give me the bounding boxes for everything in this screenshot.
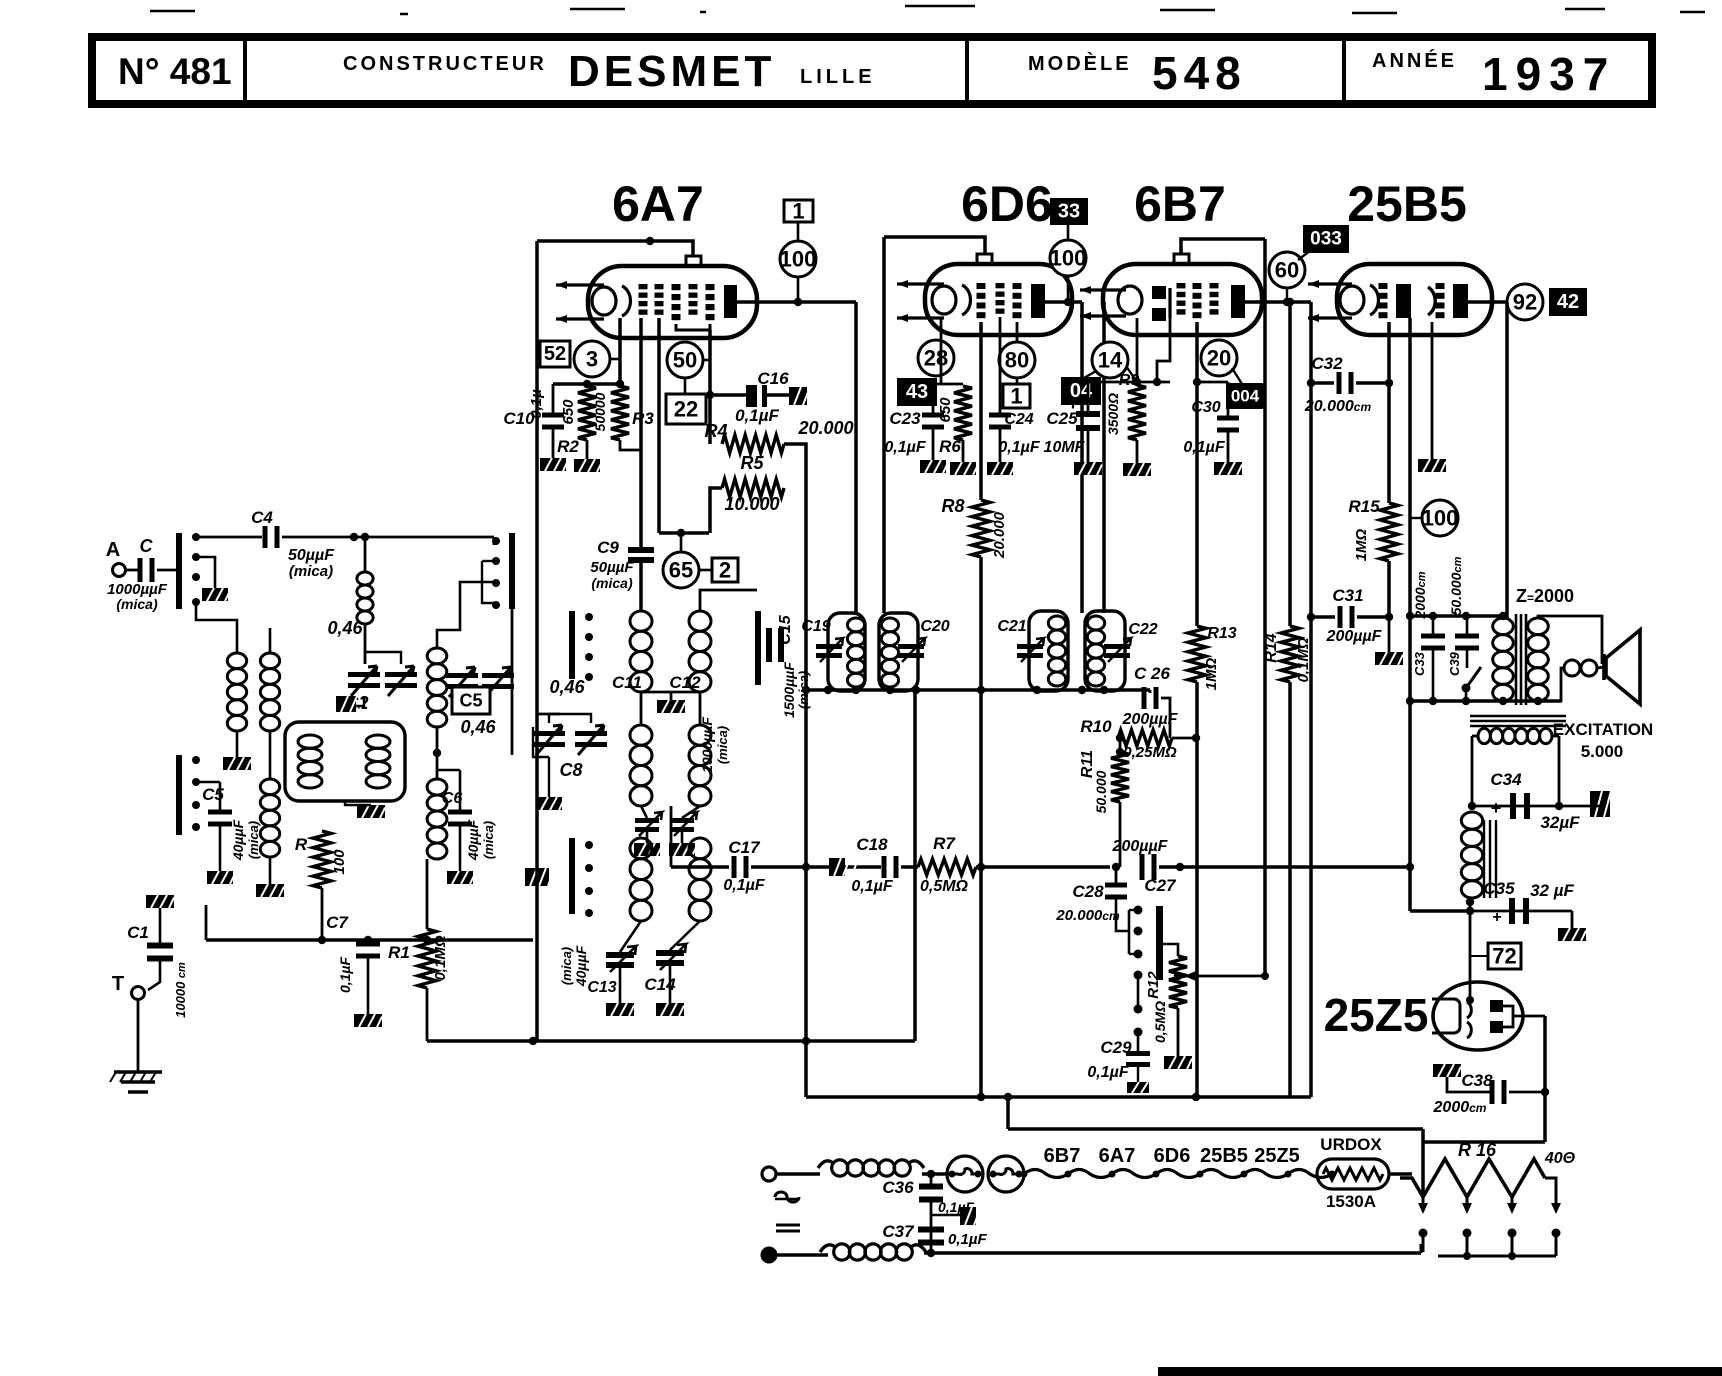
ground R9 bbox=[1123, 463, 1151, 476]
coil L2 antenna sec bbox=[260, 653, 279, 731]
wire 6A7 g2 drop bbox=[657, 318, 661, 533]
wire B5 grid line drop bbox=[1309, 302, 1313, 1097]
wire bus osc bottom bbox=[533, 1039, 915, 1043]
wire caps bottom bus bbox=[1410, 699, 1561, 703]
svg-text:A: A bbox=[106, 539, 120, 561]
switch stator bar S2 bbox=[569, 838, 575, 914]
wire R8 line lower bbox=[979, 690, 983, 1097]
wire circle20-box bbox=[1232, 368, 1242, 384]
svg-text:(mica): (mica) bbox=[246, 821, 261, 859]
ground C24 bbox=[987, 462, 1015, 475]
wire circle65 to box2 bbox=[699, 569, 712, 572]
wire R15 bottom bbox=[1387, 561, 1391, 617]
coil L4a bbox=[298, 735, 322, 788]
capacitor C25 electrolytic bbox=[1076, 411, 1100, 417]
svg-text:T: T bbox=[112, 973, 124, 995]
ground C7 bbox=[354, 1014, 382, 1027]
svg-text:R10: R10 bbox=[1080, 717, 1112, 736]
capacitor C8 block trimmer b bbox=[575, 725, 607, 755]
wire neutral hook bbox=[1420, 1244, 1423, 1253]
ground C2 bbox=[336, 696, 364, 712]
ground C13 bbox=[606, 1003, 634, 1016]
resistor R10 bbox=[1118, 730, 1172, 746]
svg-text:R7: R7 bbox=[933, 834, 956, 853]
capacitor C26 bbox=[1142, 687, 1147, 709]
node R14 top bbox=[1286, 298, 1294, 306]
terminal T bbox=[132, 987, 145, 1000]
svg-text:50000: 50000 bbox=[592, 392, 608, 431]
svg-text:50µµF: 50µµF bbox=[288, 547, 335, 564]
wire RF coil top bbox=[437, 582, 494, 648]
title block divider 1 bbox=[243, 40, 247, 101]
capacitor C23 bbox=[922, 413, 944, 418]
node R7 node bbox=[977, 863, 985, 871]
svg-text:R13: R13 bbox=[1207, 625, 1236, 642]
wire 6D6 cap frame bbox=[884, 237, 985, 254]
ground C25 bbox=[1074, 462, 1102, 475]
wire C11 leads bbox=[641, 806, 647, 818]
wire R6 gnd bbox=[962, 440, 965, 462]
svg-text:C33: C33 bbox=[1412, 651, 1427, 676]
node C31 left bbox=[1307, 613, 1315, 621]
ground C29 bbox=[1127, 1082, 1155, 1093]
capacitor C24 bbox=[989, 413, 1011, 418]
circle 100 (6D6 plate) bbox=[1050, 240, 1087, 276]
tube 6A7 top cap bbox=[686, 256, 701, 266]
svg-text:43: 43 bbox=[906, 381, 928, 403]
wire riser to tap bbox=[1421, 1129, 1425, 1197]
node IF bus junctions bbox=[802, 686, 810, 694]
svg-text:0,5MΩ: 0,5MΩ bbox=[920, 878, 969, 895]
coil L-RF2 bbox=[427, 779, 447, 859]
switch stator bar S1 bbox=[569, 611, 575, 679]
svg-text:6D6: 6D6 bbox=[1154, 1145, 1191, 1167]
tube 6D6 grid g1 bbox=[977, 283, 986, 289]
tube 6D6 top cap bbox=[977, 254, 992, 264]
node bias bus right bbox=[616, 380, 624, 388]
wire L3 gnd bbox=[269, 857, 272, 884]
svg-text:C21: C21 bbox=[997, 618, 1026, 635]
circle 20 bbox=[1201, 340, 1237, 376]
svg-text:0,25MΩ: 0,25MΩ bbox=[1123, 744, 1177, 761]
wire C30 gnd bbox=[1227, 431, 1230, 462]
svg-text:C32: C32 bbox=[1311, 354, 1343, 373]
tube 6A7 grid g1 bbox=[639, 284, 648, 289]
wire C7 top bbox=[367, 940, 370, 943]
node g2 jog bbox=[677, 529, 685, 537]
circle 80 bbox=[999, 342, 1035, 378]
wire bar to R12 bbox=[1163, 944, 1178, 956]
R16 tap 1 bbox=[1422, 1197, 1425, 1205]
node AVC node bbox=[1174, 972, 1182, 980]
wire 25Z5 plates join bbox=[1503, 1006, 1513, 1027]
svg-text:C12: C12 bbox=[669, 673, 701, 692]
wire R1 top bbox=[426, 859, 429, 929]
tube 6B7 diode strap bbox=[1168, 288, 1171, 318]
tube 6D6 heater bbox=[897, 282, 944, 285]
box 72 bbox=[1488, 943, 1521, 969]
node 6D6 plate node bbox=[1064, 298, 1072, 306]
svg-text:(mica): (mica) bbox=[116, 596, 158, 612]
terminal C16 end bbox=[789, 387, 817, 405]
wire R10 to R13 line bbox=[1172, 737, 1196, 740]
node C32 nodes bbox=[1307, 379, 1315, 387]
circle 92 bbox=[1507, 284, 1543, 320]
wire R4 right bbox=[784, 444, 806, 487]
ground osc primary bbox=[657, 700, 685, 713]
svg-text:200µµF: 200µµF bbox=[1326, 628, 1383, 645]
svg-text:R14: R14 bbox=[1263, 633, 1280, 662]
trimmer C13 bbox=[606, 952, 634, 958]
wire bus y1097 bbox=[806, 1095, 1311, 1099]
wire 6A7 bias bus bbox=[553, 382, 620, 386]
terminal A bbox=[113, 564, 126, 577]
transformer T1 primary bbox=[1493, 618, 1514, 701]
ground switch rotor bbox=[525, 868, 553, 886]
svg-text:20.000cm: 20.000cm bbox=[1055, 907, 1120, 924]
svg-text:C27: C27 bbox=[1144, 876, 1177, 895]
wire 6D6 bias bus bbox=[933, 383, 963, 386]
wire 6A7 g1 drop bbox=[639, 318, 643, 547]
coil L1 antenna bbox=[227, 653, 246, 731]
ground R12 bbox=[1164, 1056, 1192, 1069]
tube 6A7 grid g2 bbox=[655, 284, 664, 289]
wire R8 to IF bus bbox=[979, 557, 983, 690]
switch contacts S2 bbox=[585, 841, 593, 849]
wire R12 gnd bbox=[1177, 1008, 1180, 1056]
node tap bus nodes bbox=[1463, 1252, 1471, 1260]
ground R2 bbox=[574, 459, 602, 472]
svg-text:40µµF: 40µµF bbox=[230, 819, 246, 861]
field coil 2 core bbox=[1484, 820, 1496, 898]
switch contact row bbox=[1128, 910, 1131, 954]
svg-text:(mica): (mica) bbox=[715, 726, 730, 764]
capacitor C27 200uuF bbox=[1140, 854, 1145, 880]
svg-text:33: 33 bbox=[1058, 201, 1080, 223]
coil L13 IF2 primary bbox=[1048, 616, 1065, 686]
wire C39 leads bbox=[1466, 616, 1469, 635]
tube 6B7 cathode bbox=[1118, 286, 1142, 314]
speaker coil bbox=[1564, 660, 1580, 676]
capacitor C29 bbox=[1126, 1051, 1150, 1056]
capacitor C34 electrolytic bbox=[1510, 793, 1516, 819]
wire C6 top bbox=[459, 770, 462, 811]
wire C34 bus bbox=[1472, 805, 1590, 808]
speaker cone bbox=[1604, 630, 1640, 704]
svg-text:0,1µF: 0,1µF bbox=[337, 957, 353, 994]
node g2 line top-bus bbox=[1406, 612, 1414, 620]
resistor R12 bbox=[1169, 956, 1187, 1008]
resistor R13 bbox=[1188, 626, 1206, 682]
svg-text:0,1µF: 0,1µF bbox=[735, 406, 779, 425]
box 52 bbox=[540, 341, 570, 367]
svg-text:C17: C17 bbox=[728, 838, 761, 857]
svg-text:C22: C22 bbox=[1128, 621, 1157, 638]
ground antenna switch bbox=[202, 588, 230, 601]
IF1 box C19 bbox=[828, 613, 865, 691]
resistor R14 bbox=[1281, 626, 1299, 682]
svg-text:100: 100 bbox=[780, 247, 817, 272]
svg-text:C 26: C 26 bbox=[1134, 664, 1170, 683]
wire C30 lead bbox=[1197, 381, 1228, 384]
svg-text:LILLE: LILLE bbox=[800, 66, 876, 88]
svg-text:R1: R1 bbox=[388, 943, 410, 962]
svg-text:6A7: 6A7 bbox=[612, 176, 704, 232]
svg-text:+: + bbox=[1067, 393, 1079, 415]
wire C26 to R10 bbox=[1161, 698, 1170, 738]
svg-text:C: C bbox=[140, 536, 154, 556]
R16 tap 4 bbox=[1555, 1192, 1558, 1205]
label DC bars bbox=[776, 1225, 800, 1231]
svg-text:20.000: 20.000 bbox=[797, 418, 853, 438]
fuse 2 bbox=[988, 1156, 1024, 1192]
svg-text:R2: R2 bbox=[557, 437, 579, 456]
svg-text:25Z5: 25Z5 bbox=[1324, 989, 1429, 1041]
wire L2 top bbox=[269, 628, 272, 653]
terminal AC neutral bbox=[762, 1248, 776, 1262]
svg-text:28: 28 bbox=[924, 346, 948, 371]
ground C8 bbox=[536, 797, 564, 810]
svg-text:10MF: 10MF bbox=[1044, 439, 1086, 456]
svg-text:0,1µF: 0,1µF bbox=[948, 1231, 987, 1248]
wire circle14 to cathode node bbox=[1126, 366, 1137, 382]
svg-text:20: 20 bbox=[1207, 346, 1231, 371]
wire C2 frame bbox=[365, 652, 401, 664]
svg-text:EXCITATION: EXCITATION bbox=[1553, 720, 1653, 739]
resistor R15 bbox=[1380, 503, 1398, 561]
trimmer C14 bbox=[656, 950, 684, 956]
coil L10 osc padder right bbox=[689, 838, 711, 921]
node LRF link bbox=[433, 749, 441, 757]
tube 25B5 plate bbox=[1453, 284, 1468, 318]
border frame bbox=[150, 6, 1705, 14]
trimmer C21 bbox=[1017, 644, 1043, 649]
svg-text:80: 80 bbox=[1005, 348, 1029, 373]
resistor R(100) bbox=[313, 831, 331, 888]
wire AVC takeoff bbox=[1184, 975, 1265, 978]
tube 6A7 grid g3 bbox=[672, 284, 681, 290]
label AC sine bbox=[775, 1192, 799, 1202]
wire 6D6 plate out bbox=[1045, 300, 1082, 304]
wire IF bus bbox=[806, 688, 1150, 692]
wire osc box gnd bbox=[345, 801, 371, 805]
node 6A7 plate node bbox=[794, 298, 802, 306]
svg-text:40Θ: 40Θ bbox=[1544, 1150, 1576, 1167]
capacitor C36 bbox=[919, 1184, 943, 1190]
svg-text:C30: C30 bbox=[1191, 399, 1220, 416]
R16 tap 3 bbox=[1511, 1197, 1514, 1205]
R16 tap 2 bbox=[1466, 1197, 1469, 1205]
circle 28 bbox=[918, 340, 954, 376]
wire 25Z5 to R16 riser bbox=[1543, 1092, 1547, 1142]
wire C31 left bbox=[1311, 615, 1335, 619]
svg-text:0,1µF: 0,1µF bbox=[1087, 1064, 1129, 1081]
tube 6A7 envelope bbox=[588, 266, 757, 338]
svg-text:R5: R5 bbox=[740, 453, 764, 473]
ground C36 bbox=[960, 1207, 988, 1225]
resistor R3 bbox=[611, 386, 629, 440]
wire ant bus bbox=[206, 938, 533, 942]
node C27 node bbox=[1176, 863, 1184, 871]
wire bus drop x1008 bbox=[1006, 1097, 1010, 1129]
svg-text:3500Ω: 3500Ω bbox=[1105, 393, 1121, 435]
terminal AC live bbox=[762, 1167, 776, 1181]
tube 25B5 cathode bbox=[1340, 285, 1378, 315]
tube 25B5 drive plate bbox=[1396, 284, 1411, 318]
wire C5 gnd bbox=[219, 825, 222, 871]
svg-text:100: 100 bbox=[1422, 506, 1459, 531]
svg-text:DESMET: DESMET bbox=[568, 47, 775, 96]
svg-text:52: 52 bbox=[544, 343, 566, 365]
wire L1 top bbox=[196, 602, 237, 653]
svg-text:40µµF: 40µµF bbox=[573, 945, 589, 987]
svg-text:42: 42 bbox=[1557, 291, 1579, 313]
wire C9 to osc coil bbox=[639, 563, 643, 611]
wire A-C bbox=[126, 569, 138, 572]
capacitor C28 bbox=[1105, 883, 1127, 888]
switch contacts B1 bbox=[492, 537, 500, 545]
svg-text:22: 22 bbox=[674, 397, 698, 422]
wire ant coil lead 2 bbox=[364, 624, 367, 664]
switch bar C27 bbox=[1156, 906, 1163, 980]
wire 25B5 grid drop bbox=[1387, 322, 1391, 503]
wire 6B7 diode return bbox=[1157, 318, 1170, 382]
wire circle50 to box22 bbox=[684, 378, 687, 394]
svg-text:C34: C34 bbox=[1490, 770, 1522, 789]
wire box72 dash bbox=[1470, 955, 1488, 957]
title block outer frame bbox=[92, 37, 1652, 104]
svg-text:R4: R4 bbox=[704, 421, 727, 441]
wire riser link bbox=[1423, 1140, 1545, 1144]
node neutral node bbox=[927, 1249, 935, 1257]
node R10 node bbox=[1192, 734, 1200, 742]
wire AVC line bbox=[806, 865, 881, 869]
box 22 bbox=[666, 394, 706, 424]
svg-text:R3: R3 bbox=[632, 409, 654, 428]
capacitor C15 bbox=[766, 628, 772, 662]
svg-text:650: 650 bbox=[937, 397, 954, 423]
svg-text:C35: C35 bbox=[1483, 879, 1515, 898]
trimmer C20 bbox=[898, 644, 924, 649]
svg-text:0,1MΩ: 0,1MΩ bbox=[1295, 637, 1312, 682]
wire R3 to C9 line bbox=[620, 440, 641, 450]
svg-text:C23: C23 bbox=[889, 409, 921, 428]
tube 6A7 grid g4 bbox=[689, 284, 698, 289]
box 33 bbox=[1051, 199, 1087, 224]
capacitor C antenna bbox=[138, 558, 143, 582]
resistor R9 bbox=[1128, 385, 1146, 440]
resistor R4 bbox=[722, 435, 784, 453]
svg-text:1: 1 bbox=[792, 199, 804, 224]
node R8 line bus bbox=[977, 1093, 985, 1101]
svg-text:1: 1 bbox=[1010, 384, 1022, 409]
capacitor C4 bbox=[263, 526, 268, 548]
wire C23 gnd bbox=[932, 428, 935, 460]
coil L-RF1 bbox=[427, 648, 447, 727]
tube 25Z5 envelope bbox=[1433, 982, 1523, 1050]
svg-text:+: + bbox=[1492, 909, 1501, 926]
trimmer C12 bbox=[670, 818, 694, 823]
wire output top bus bbox=[1410, 614, 1507, 618]
svg-text:1530A: 1530A bbox=[1326, 1192, 1376, 1211]
capacitor C15 bar bbox=[755, 611, 761, 685]
wire R13 bottom bbox=[1195, 682, 1199, 1097]
svg-text:14: 14 bbox=[1098, 348, 1123, 373]
wire R10-R11 link bbox=[1119, 738, 1122, 752]
tube 6D6 cathode bbox=[932, 285, 970, 315]
resistor R6 bbox=[954, 386, 972, 440]
tube 6B7 diode plate 2 bbox=[1152, 308, 1166, 321]
svg-text:0,5MΩ: 0,5MΩ bbox=[1152, 1001, 1168, 1043]
svg-text:50.000: 50.000 bbox=[1093, 770, 1109, 813]
switch stator bar B1 bbox=[509, 533, 515, 609]
circle 50 bbox=[667, 342, 703, 378]
tube 6D6 grid g3 bbox=[1013, 283, 1022, 289]
choke L15 bbox=[818, 1160, 924, 1176]
node caps bottom bbox=[1429, 697, 1437, 705]
tube 25Z5 cathodes bbox=[1467, 1002, 1471, 1038]
wire box04-circle14 bbox=[1084, 371, 1096, 378]
svg-text:C38: C38 bbox=[1461, 1071, 1493, 1090]
wire C38 gnd lead bbox=[1447, 1077, 1490, 1092]
wire C8 gnd lead bbox=[548, 757, 550, 797]
wire L1 gnd bbox=[236, 731, 239, 757]
svg-text:C7: C7 bbox=[326, 913, 349, 932]
ground osc box bbox=[357, 805, 385, 818]
svg-text:72: 72 bbox=[1492, 944, 1516, 969]
capacitor C6 bbox=[448, 810, 472, 815]
svg-text:0,46: 0,46 bbox=[549, 677, 585, 697]
ground C30 bbox=[1214, 462, 1242, 475]
svg-text:R9: R9 bbox=[1119, 372, 1140, 389]
svg-text:200µµF: 200µµF bbox=[1112, 838, 1169, 855]
svg-text:10000 cm: 10000 cm bbox=[173, 962, 188, 1018]
title block divider 3 bbox=[1342, 40, 1346, 101]
title block divider 2 bbox=[965, 40, 969, 101]
tube 6B7 grid g1 bbox=[1177, 283, 1186, 288]
wire C5 top bbox=[219, 782, 222, 811]
svg-text:C19: C19 bbox=[801, 618, 830, 635]
wire 25B5 g2 drop bbox=[1408, 318, 1412, 911]
node C30 elbow bbox=[1193, 378, 1201, 386]
svg-text:C14: C14 bbox=[644, 975, 676, 994]
wire 25Z5 plate drop bbox=[1543, 1016, 1547, 1092]
trimmer C11 bbox=[635, 818, 659, 823]
wire ant coil lead bbox=[364, 537, 367, 572]
wire bus y1129 bbox=[1008, 1127, 1423, 1131]
switch contacts A1 bbox=[192, 533, 200, 541]
svg-text:6B7: 6B7 bbox=[1134, 176, 1226, 232]
svg-text:0,46: 0,46 bbox=[327, 618, 363, 638]
node C38 node bbox=[1541, 1088, 1549, 1096]
svg-text:1937: 1937 bbox=[1482, 48, 1616, 100]
field coil 2 bbox=[1461, 812, 1482, 898]
wire left vert bottom bbox=[535, 714, 539, 1041]
resistor R1 bbox=[418, 929, 436, 988]
wire osc coil top right bbox=[700, 590, 757, 611]
wire box33 to circle bbox=[1067, 224, 1070, 240]
svg-text:0,1µF: 0,1µF bbox=[1183, 439, 1225, 456]
wire 6B7 plate out bbox=[1245, 300, 1311, 304]
tube 6A7 grid g5 bbox=[706, 284, 715, 290]
node ant coil node bbox=[361, 533, 369, 541]
svg-text:C20: C20 bbox=[920, 618, 949, 635]
wire 6B7 AVC feed line bbox=[1263, 239, 1267, 976]
node field node bbox=[1468, 802, 1476, 810]
wire IF1 sec return riser bbox=[913, 690, 917, 1041]
svg-text:C29: C29 bbox=[1100, 1038, 1132, 1057]
wire C1 top bbox=[159, 908, 162, 945]
